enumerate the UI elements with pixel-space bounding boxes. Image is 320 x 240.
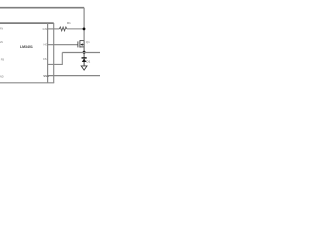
resistor R1: [59, 27, 67, 31]
wire upper bus into IC / node to ILIM: [0, 22, 54, 24]
svg-text:ILIM: ILIM: [43, 28, 48, 31]
transistor Q1 PFET: [78, 40, 84, 47]
wire vertical bus x=53.7 down to bottom rail: [53, 23, 55, 83]
svg-text:D1: D1: [86, 59, 90, 63]
svg-text:VIN: VIN: [0, 27, 3, 30]
svg-text:LM3401: LM3401: [20, 45, 33, 49]
wire HG pin to Q1 gate: [48, 44, 78, 46]
svg-text:HG: HG: [44, 43, 48, 47]
wire D1 anode to ground: [83, 62, 85, 66]
node junction dot at switch node: [83, 51, 86, 54]
op-amp U1 IC box LM3401 edges: [0, 23, 54, 83]
svg-text:EN: EN: [0, 41, 3, 44]
wire ILIM pin to R1: [48, 28, 60, 30]
transistor Q1 body arrow: [80, 43, 83, 45]
svg-text:GND: GND: [0, 75, 4, 78]
node junction dot at R1 / vertical: [83, 28, 86, 31]
ground symbol open triangle: [81, 66, 87, 70]
wire Q1 source down to switch node: [83, 41, 85, 58]
svg-text:Q1: Q1: [86, 40, 90, 44]
svg-text:R1: R1: [67, 21, 71, 25]
svg-text:FB: FB: [1, 59, 5, 62]
wire VIN top rail: [0, 7, 84, 9]
svg-text:CS: CS: [43, 57, 47, 61]
diode D1 cathode bar: [82, 57, 87, 59]
diode D1 body: [82, 58, 87, 62]
wire switch node horizontal to right edge: [62, 52, 100, 54]
wire bottom return rail: [48, 75, 100, 77]
wire right vertical from top rail to Q1 drain: [83, 8, 85, 41]
wire step down from switch wire to CS pin: [48, 53, 63, 65]
wire R1 to right vertical: [67, 28, 84, 30]
